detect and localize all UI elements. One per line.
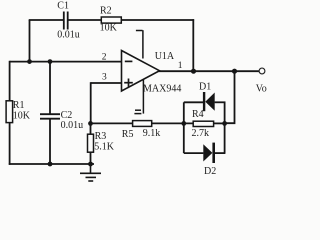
wire D2 rail right <box>215 152 226 154</box>
svg-text:2: 2 <box>102 52 107 62</box>
output terminal Vo circle <box>259 68 265 74</box>
wire diode block left edge <box>183 102 185 153</box>
junction node C2 top <box>48 59 53 64</box>
svg-text:10K: 10K <box>13 110 31 121</box>
wire inverting input row (pin 2) <box>10 61 122 63</box>
resistor R5 <box>133 121 152 127</box>
wire D1 rail right <box>215 101 226 103</box>
junction node output drop <box>232 69 237 74</box>
op-amp U1A <box>122 51 160 92</box>
svg-text:0.01u: 0.01u <box>61 120 84 131</box>
svg-text:5.1K: 5.1K <box>94 141 115 152</box>
wire pin3 vertical down to R5 rail <box>90 82 92 123</box>
wire R3 top stub <box>90 123 92 134</box>
capacitor C1 <box>64 12 68 30</box>
svg-text:Vo: Vo <box>256 83 267 94</box>
wire top-left horizontal to C1 <box>29 19 63 21</box>
svg-text:9.1k: 9.1k <box>143 128 161 139</box>
svg-text:D2: D2 <box>204 166 216 177</box>
svg-text:R5: R5 <box>122 129 134 140</box>
junction node C2 bottom <box>48 162 53 167</box>
wire C2 column upper <box>49 62 51 114</box>
diode D1 <box>203 92 215 111</box>
op-amp V- power pin with ground bars <box>134 79 143 114</box>
wire R1 column lower <box>9 123 11 165</box>
wire left vertical from top wire to node A <box>29 20 31 62</box>
wire non-inverting input row (pin 3) <box>91 82 122 84</box>
svg-text:0.01u: 0.01u <box>57 29 80 40</box>
resistor R3 <box>88 134 94 152</box>
resistor R2 <box>101 17 121 23</box>
svg-text:C1: C1 <box>57 0 69 11</box>
wire bottom rail <box>9 163 94 165</box>
wire R4 rail right <box>214 122 225 124</box>
wire op-amp output row <box>159 70 260 72</box>
junction node block right <box>222 121 227 126</box>
wire R1 column upper <box>9 61 11 101</box>
op-amp minus input symbol <box>125 60 133 62</box>
junction node block left <box>181 121 186 126</box>
op-amp V+ power pin <box>136 30 143 58</box>
wire D2 rail left <box>184 152 204 154</box>
svg-text:10K: 10K <box>100 23 118 34</box>
ground <box>80 164 101 181</box>
resistor R1 <box>6 101 13 123</box>
svg-text:D1: D1 <box>199 82 211 93</box>
svg-text:R4: R4 <box>192 109 204 120</box>
diode D2 <box>203 143 215 163</box>
svg-text:1: 1 <box>178 61 183 71</box>
wire R2 to top-right corner <box>121 19 194 21</box>
svg-text:3: 3 <box>102 73 107 83</box>
svg-text:C2: C2 <box>61 110 73 121</box>
wire R5 rail left <box>91 122 133 124</box>
wire feedback vertical down to output node <box>192 19 194 71</box>
op-amp plus input symbol <box>124 79 133 87</box>
wire R5 rail middle to R4 <box>152 122 194 124</box>
junction node R3 bottom / ground <box>88 162 93 167</box>
wire diode block right edge <box>224 102 226 154</box>
wire R3 bottom stub to ground <box>90 152 92 164</box>
svg-text:U1A: U1A <box>155 51 175 62</box>
wire output drop to R4 rail <box>225 71 235 123</box>
svg-text:MAX944: MAX944 <box>143 84 181 95</box>
svg-text:2.7k: 2.7k <box>192 128 210 139</box>
svg-text:R2: R2 <box>100 6 112 17</box>
wire C1 to R2 <box>68 19 101 21</box>
wire C2 column lower <box>49 119 51 164</box>
wire D1 rail left <box>184 101 203 103</box>
junction node feedback / output <box>191 69 196 74</box>
junction node pin3 / R5 / R3 <box>88 121 93 126</box>
capacitor C2 <box>40 114 60 119</box>
junction node top of pin2 row (left vertical) <box>27 59 32 64</box>
resistor R4 <box>193 121 213 126</box>
